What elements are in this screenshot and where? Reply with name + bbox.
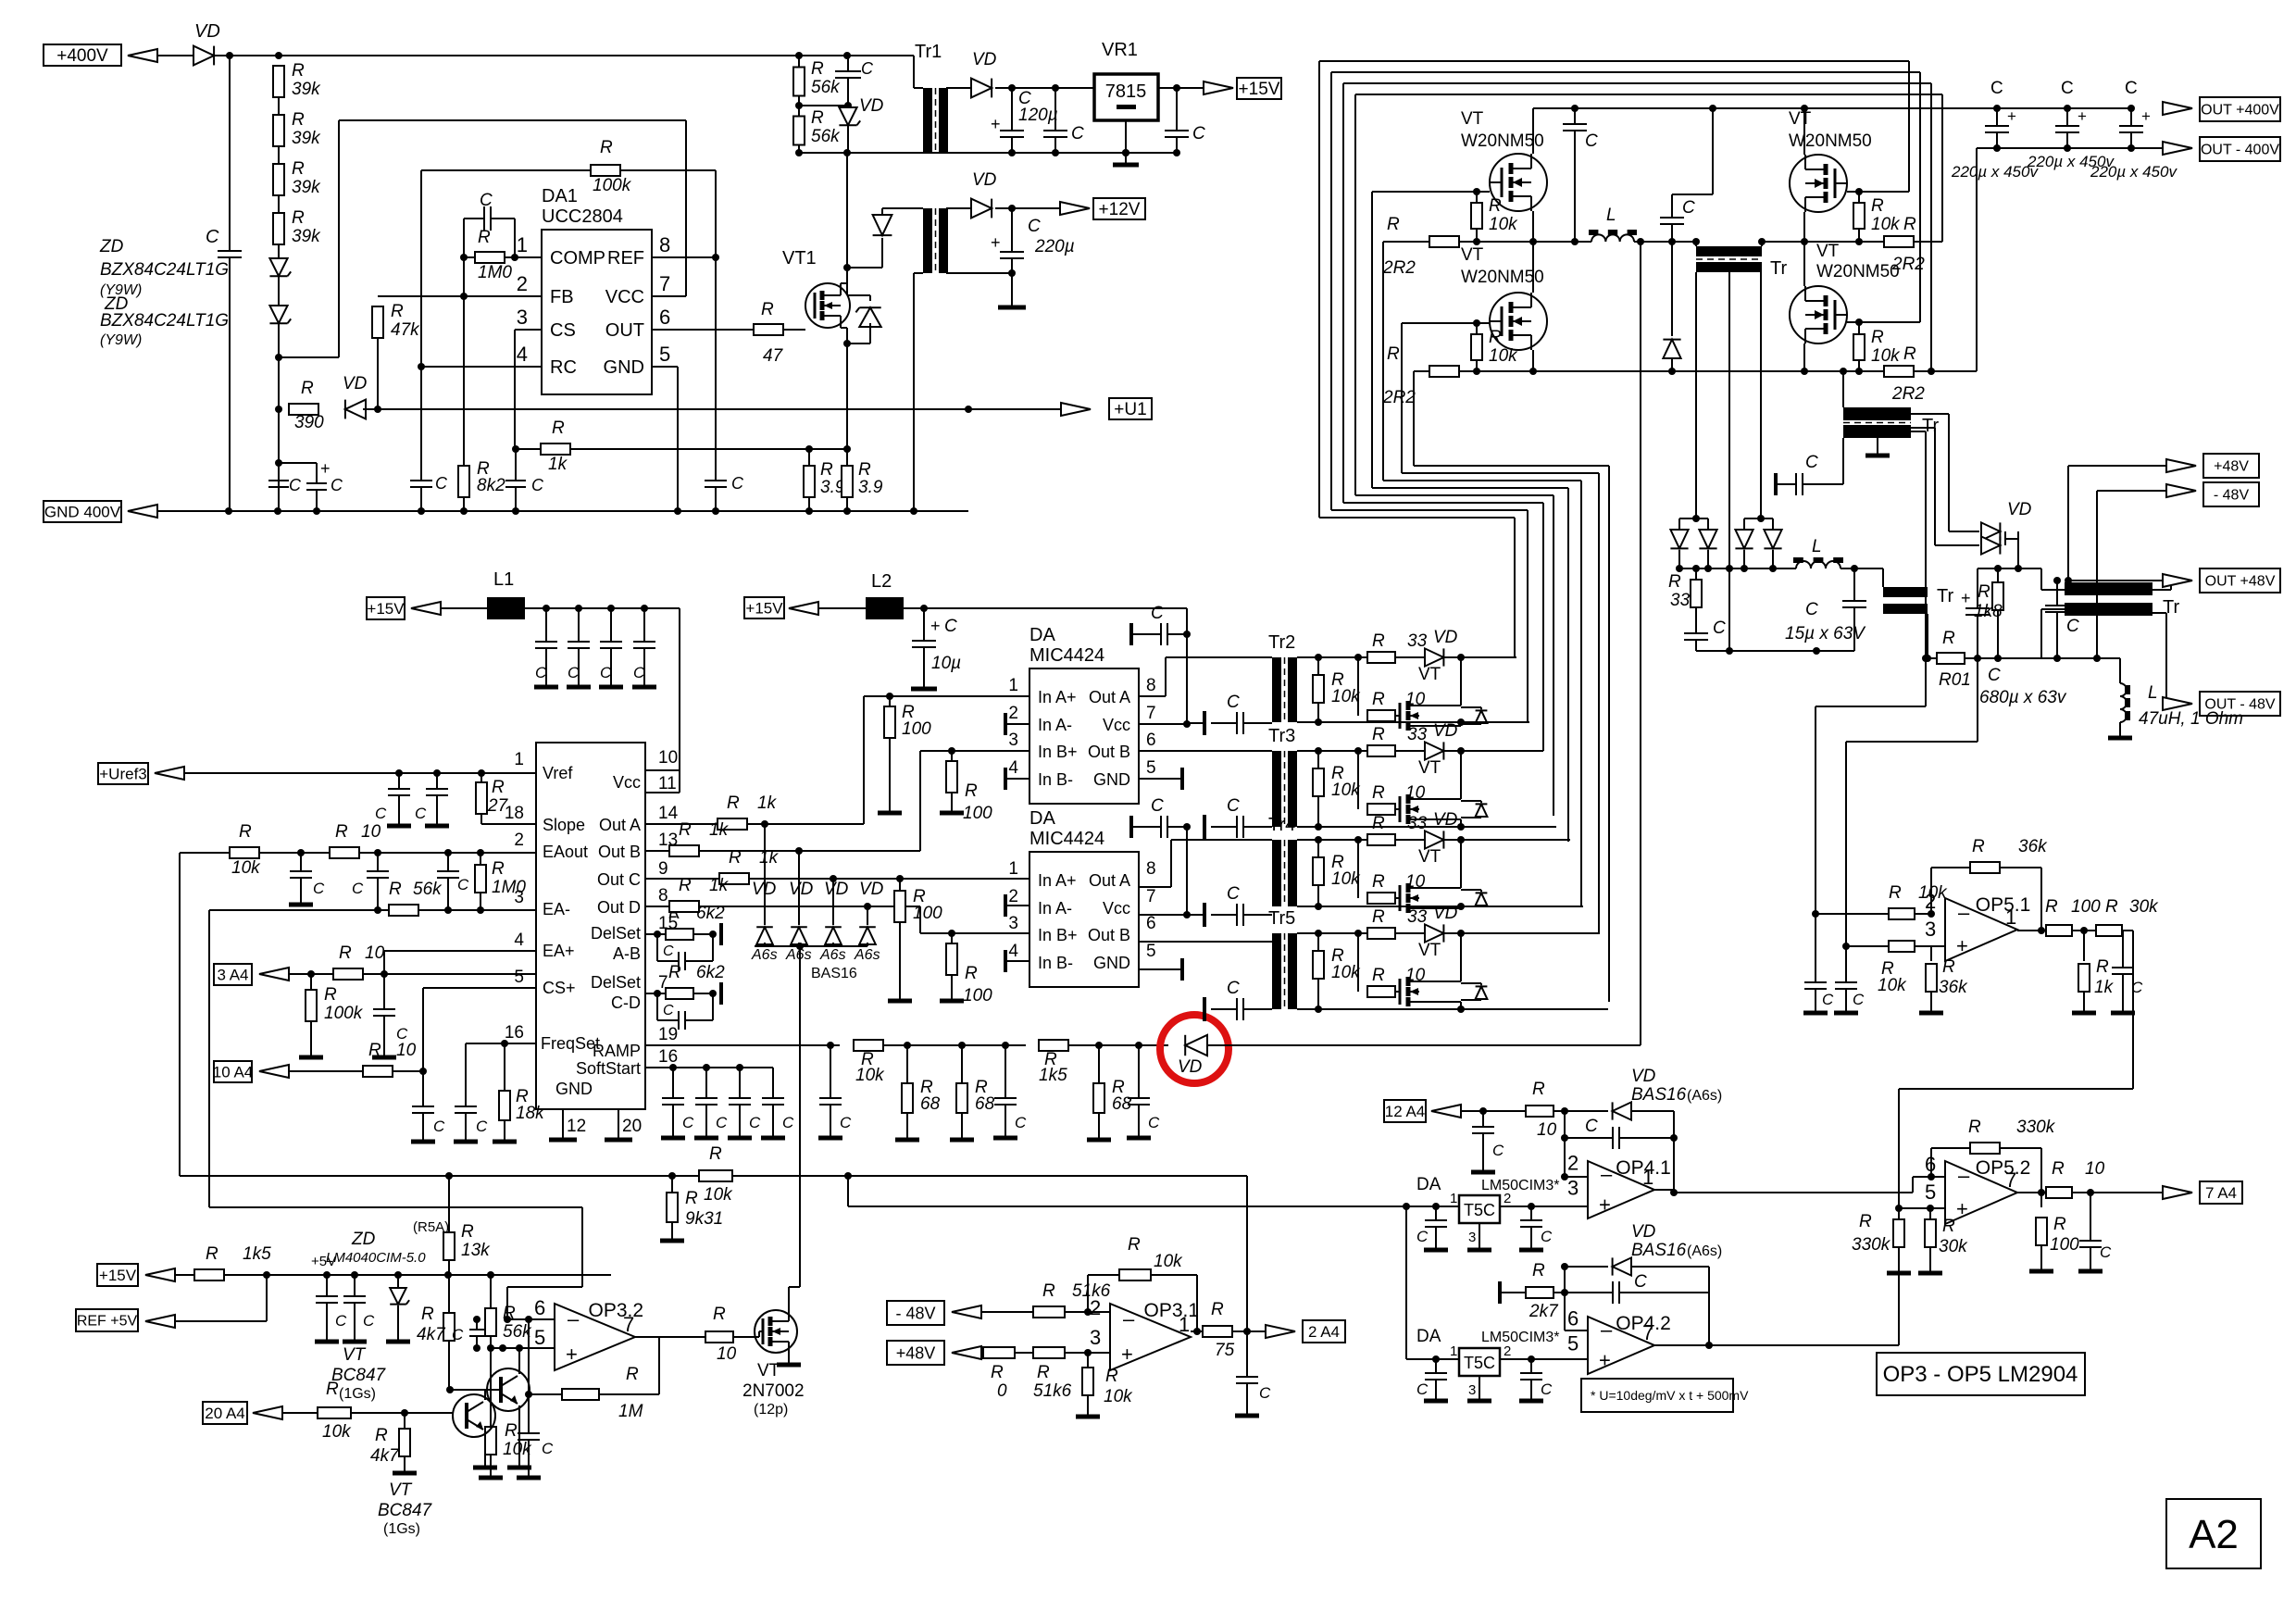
resistor R 4k7 base: [404, 1413, 406, 1428]
svg-text:C: C: [535, 664, 547, 681]
wire OutA da1 to Tr2: [1139, 695, 1166, 697]
svg-text:3.9: 3.9: [858, 478, 883, 497]
svg-text:R: R: [709, 1144, 722, 1164]
svg-text:W20NM50: W20NM50: [1461, 268, 1544, 287]
capacitor C 10u: [923, 608, 925, 641]
svg-text:C: C: [1015, 1114, 1027, 1131]
svg-text:VD: VD: [1631, 1067, 1656, 1086]
svg-text:+: +: [991, 115, 1001, 133]
svg-text:R: R: [1942, 1217, 1955, 1236]
svg-text:DA: DA: [1416, 1175, 1441, 1194]
svg-text:OP3.1: OP3.1: [1144, 1300, 1200, 1321]
svg-text:+15V: +15V: [745, 599, 783, 617]
wire drain4: [1803, 242, 1805, 286]
resistor R 6k2 ab: [666, 929, 693, 940]
node divider tap: [275, 354, 282, 361]
wire EA- long row B: [209, 1206, 582, 1208]
svg-text:BAS16: BAS16: [811, 966, 857, 981]
svg-text:8: 8: [1146, 676, 1156, 695]
resistor R 39k #2: [273, 115, 284, 146]
wire op52 minus: [1913, 1176, 1945, 1178]
wire bc847l collector: [484, 1390, 486, 1400]
resistor R 100 op52: [2040, 1193, 2042, 1207]
svg-text:+: +: [320, 459, 331, 478]
svg-text:+12V: +12V: [1099, 200, 1141, 219]
svg-text:+: +: [2007, 107, 2016, 125]
wire gate1 row: [1372, 191, 1490, 193]
resistor R 10 tr3: [1357, 751, 1359, 809]
resistor R 100 op51: [2046, 925, 2072, 936]
opamp OP3.1: [1110, 1304, 1191, 1370]
svg-text:10: 10: [658, 748, 678, 768]
svg-text:6: 6: [534, 1296, 545, 1319]
svg-text:R: R: [461, 1222, 474, 1242]
svg-text:R: R: [1042, 1281, 1055, 1301]
svg-text:L2: L2: [871, 571, 892, 592]
capacitor C cs: [515, 449, 517, 481]
svg-text:Out B: Out B: [1088, 743, 1130, 761]
capacitor C 680u: [1977, 568, 1978, 608]
resistor R 51k6 a: [1033, 1306, 1065, 1318]
svg-text:C: C: [1988, 666, 2001, 685]
svg-text:Tr1: Tr1: [915, 42, 942, 62]
svg-text:LM50CIM3*: LM50CIM3*: [1481, 1178, 1559, 1193]
capacitor C vref1: [398, 773, 400, 789]
resistor R 18k: [504, 1043, 505, 1091]
svg-text:2R2: 2R2: [1382, 258, 1416, 278]
svg-text:56k: 56k: [811, 127, 841, 146]
inductor L bridge: [1591, 234, 1634, 242]
resistor R 56k #2: [793, 117, 805, 145]
svg-text:C: C: [375, 805, 387, 822]
wire main tr taps: [1695, 272, 1697, 518]
capacitor C bridge snubber: [1574, 108, 1576, 124]
svg-text:VD: VD: [972, 50, 997, 69]
title block A2: [2166, 1499, 2261, 1568]
resistor R 39k #1: [273, 66, 284, 97]
svg-text:36k: 36k: [2018, 837, 2048, 856]
diode VD tr2: [1425, 648, 1443, 666]
wire bundle top line 2: [1331, 71, 1920, 73]
resistor R 10k op51a: [1812, 910, 1819, 918]
svg-text:C: C: [2131, 979, 2143, 996]
wire EA- row: [208, 910, 210, 1207]
capacitor C 220u out2: [2066, 108, 2068, 126]
capacitor C ref: [705, 480, 727, 481]
svg-text:100: 100: [2071, 897, 2101, 917]
driver IC DA MIC4424 #1: [1029, 668, 1139, 804]
resistor R 10k tr2: [1317, 657, 1319, 674]
transformer Tr1 lower winding: [923, 208, 932, 273]
svg-text:Tr3: Tr3: [1268, 726, 1295, 746]
resistor R 1k outC: [719, 873, 749, 884]
svg-text:6: 6: [1146, 914, 1156, 933]
wire tr3 secondary top: [1297, 750, 1543, 752]
wire Out C row: [645, 878, 719, 880]
resistor R 27 slope: [480, 773, 482, 782]
resistor R 68 #1: [906, 1045, 908, 1083]
wire rect rail: [1679, 568, 1796, 569]
svg-text:GND: GND: [1093, 954, 1130, 972]
wire op32 minus: [507, 1318, 555, 1320]
svg-text:VD: VD: [1433, 904, 1458, 923]
svg-text:Out A: Out A: [599, 816, 641, 834]
resistor R 330k gnd: [1898, 1208, 1900, 1219]
mosfet VT1: [805, 283, 850, 328]
diode VD clamp mid: [1671, 242, 1673, 336]
node REF +5V: [76, 1309, 138, 1331]
resistor R 4k7 col: [448, 1275, 450, 1312]
svg-text:EA+: EA+: [543, 942, 575, 960]
resistor R 8k2: [458, 466, 469, 497]
svg-text:10k: 10k: [1331, 869, 1361, 889]
wire InB+ da1: [920, 750, 1029, 752]
wire bundle top line 4: [1355, 94, 1942, 95]
svg-text:R: R: [389, 880, 402, 899]
svg-text:VT1: VT1: [782, 248, 817, 269]
svg-text:1: 1: [1450, 1343, 1457, 1359]
svg-text:R: R: [391, 302, 404, 321]
svg-text:4: 4: [1008, 758, 1018, 778]
svg-text:DA: DA: [1029, 625, 1055, 645]
svg-text:W20NM50: W20NM50: [1789, 131, 1872, 151]
svg-text:+400V: +400V: [56, 46, 108, 66]
svg-text:1: 1: [1179, 1313, 1190, 1336]
wire bundle top line 1: [1319, 60, 1909, 62]
svg-text:R: R: [1668, 572, 1681, 592]
svg-text:30k: 30k: [1939, 1237, 1968, 1256]
svg-text:20 A4: 20 A4: [205, 1405, 245, 1422]
svg-text:4k7: 4k7: [417, 1325, 446, 1344]
resistor R 10k gnd op31: [1087, 1353, 1089, 1367]
svg-text:R: R: [1372, 907, 1385, 927]
svg-text:FB: FB: [550, 287, 574, 307]
svg-text:DA: DA: [1029, 808, 1055, 829]
diode VD 48v pair: [1911, 413, 1949, 415]
svg-text:100: 100: [2050, 1235, 2079, 1255]
wire CS+ pin5: [423, 987, 536, 989]
svg-text:13k: 13k: [461, 1241, 491, 1260]
svg-text:C: C: [1541, 1228, 1553, 1245]
coupling cap C tr4: [1203, 903, 1206, 927]
resistor R 51k6 b: [1033, 1347, 1065, 1358]
wire to Vcc pins: [679, 608, 680, 759]
inductor L out: [1796, 561, 1841, 568]
resistor R 1M feedback: [528, 1319, 530, 1394]
wire top rail 400V: [214, 55, 914, 56]
capacitor C op31 out: [1246, 1331, 1248, 1377]
wire staircase line 5: [1371, 192, 1373, 488]
svg-text:R: R: [478, 228, 491, 247]
capacitor C ea+: [383, 974, 385, 1009]
resistor R 1k: [541, 443, 570, 455]
svg-text:6: 6: [659, 306, 670, 329]
ground tick InB- da1: [1005, 778, 1029, 780]
diode VD BAS16 #1: [764, 824, 766, 925]
svg-text:6k2: 6k2: [696, 963, 725, 982]
resistor R 2R2 s3: [1884, 236, 1914, 247]
capacitor C ramp3: [1138, 1045, 1140, 1098]
node 12 A4: [1384, 1100, 1426, 1122]
capacitor C vref2: [436, 773, 438, 789]
svg-text:C: C: [1713, 618, 1726, 638]
resistor R 1k outA: [717, 818, 747, 830]
svg-text:10k: 10k: [1331, 781, 1361, 800]
svg-text:GND: GND: [1093, 770, 1130, 789]
svg-text:7: 7: [623, 1313, 634, 1336]
svg-text:C: C: [363, 1312, 375, 1330]
svg-text:R: R: [679, 876, 692, 895]
svg-text:Tr4: Tr4: [1268, 815, 1295, 835]
svg-text:10k: 10k: [1331, 687, 1361, 706]
capacitor C l1-1: [545, 608, 547, 642]
node 3 A4: [214, 964, 252, 985]
svg-text:R: R: [965, 964, 978, 983]
svg-text:R: R: [368, 1041, 381, 1060]
svg-text:C: C: [2061, 79, 2074, 98]
capacitor C r33: [1684, 632, 1708, 634]
svg-text:R: R: [324, 985, 337, 1005]
svg-text:A6s: A6s: [854, 947, 880, 963]
resistor R 10k tr4: [1317, 840, 1319, 856]
svg-text:4: 4: [514, 931, 524, 950]
svg-text:1: 1: [1450, 1191, 1457, 1206]
svg-text:VT: VT: [1461, 245, 1484, 265]
svg-text:L: L: [1812, 537, 1822, 556]
node OUT -400V: [2163, 142, 2192, 155]
svg-text:2: 2: [1567, 1152, 1578, 1175]
svg-text:2: 2: [1504, 1191, 1511, 1206]
wire tr2 secondary bottom: [1297, 721, 1529, 723]
svg-text:R: R: [1942, 957, 1955, 977]
svg-text:51k6: 51k6: [1033, 1381, 1072, 1401]
resistor R 10k g1: [1476, 192, 1478, 203]
svg-text:R: R: [1859, 1212, 1872, 1231]
svg-text:1: 1: [1008, 676, 1018, 695]
svg-text:R: R: [1489, 196, 1502, 216]
wire REF pin8: [652, 256, 716, 258]
svg-text:1k5: 1k5: [243, 1244, 271, 1264]
diode VD body clamp tr2: [1461, 706, 1481, 708]
svg-text:DA1: DA1: [542, 186, 578, 206]
svg-text:10µ: 10µ: [931, 654, 961, 673]
svg-text:Vref: Vref: [543, 764, 573, 782]
svg-text:+: +: [2141, 107, 2151, 125]
ground tick InB- da2: [1005, 960, 1029, 962]
svg-text:1: 1: [1008, 859, 1018, 879]
svg-text:10 A4: 10 A4: [213, 1063, 254, 1081]
svg-text:EAout: EAout: [543, 843, 588, 861]
capacitor C 48 filt: [2056, 581, 2058, 606]
node +15V L1 input: [367, 597, 405, 619]
svg-text:W20NM50: W20NM50: [1816, 262, 1900, 281]
node -48V sense: [2096, 491, 2098, 658]
svg-text:Out B: Out B: [598, 843, 641, 861]
svg-text:Vcc: Vcc: [613, 773, 641, 792]
svg-text:BC847: BC847: [331, 1366, 387, 1385]
wire mid rail: [1477, 241, 1591, 243]
resistor R 30k gnd: [1929, 1208, 1931, 1219]
resistor R 2R2 rail1: [1383, 241, 1429, 243]
svg-text:R: R: [239, 822, 252, 842]
svg-text:BZX84C24LT1G: BZX84C24LT1G: [100, 260, 229, 280]
wire drain1: [1532, 108, 1534, 154]
wire winding return: [914, 272, 923, 274]
svg-text:Out C: Out C: [597, 870, 641, 889]
resistor R 47k: [372, 306, 383, 338]
svg-text:+: +: [991, 233, 1001, 252]
wire divider down: [278, 357, 280, 409]
svg-text:330k: 330k: [2016, 1118, 2056, 1137]
svg-text:7 A4: 7 A4: [2205, 1184, 2237, 1202]
zener diode ZD BZX84C24LT1G #1: [269, 258, 287, 276]
svg-text:VT: VT: [1461, 109, 1484, 129]
opamp OP4.1: [1588, 1161, 1654, 1218]
svg-text:C: C: [731, 474, 744, 493]
svg-text:8k2: 8k2: [477, 476, 505, 495]
svg-text:C: C: [1192, 124, 1205, 144]
svg-text:10k: 10k: [855, 1066, 885, 1085]
wire op41 minus: [1564, 1138, 1566, 1177]
svg-text:L: L: [1606, 206, 1616, 225]
svg-text:Tr: Tr: [2163, 597, 2179, 618]
svg-text:C: C: [1585, 131, 1598, 151]
wire VT1 drain riser: [846, 153, 848, 294]
diode VD BAS16 #3: [832, 879, 834, 925]
svg-text:+: +: [930, 617, 941, 635]
svg-text:R: R: [761, 300, 774, 319]
wire drain2: [1532, 242, 1534, 293]
resistor R 10 tr2: [1357, 657, 1359, 716]
svg-text:C-D: C-D: [611, 993, 641, 1012]
svg-text:2: 2: [517, 272, 528, 295]
node OUT - 48V: [2200, 692, 2280, 716]
svg-text:27: 27: [487, 796, 509, 816]
svg-text:R: R: [1372, 690, 1385, 709]
svg-text:2 A4: 2 A4: [1308, 1323, 1340, 1341]
diode VD 15V rectifier: [946, 87, 970, 89]
wire op51 out: [2017, 930, 2046, 931]
wire vcc drop da1: [1186, 608, 1188, 634]
svg-text:R: R: [1489, 328, 1502, 347]
svg-text:R: R: [1372, 966, 1385, 985]
svg-text:VD: VD: [789, 880, 814, 899]
svg-text:3: 3: [1567, 1177, 1578, 1200]
wire tr5 secondary top: [1297, 932, 1598, 934]
svg-text:C: C: [457, 876, 469, 893]
wire +400V to diode: [128, 49, 157, 62]
svg-text:10: 10: [365, 943, 385, 963]
capacitor C 15u: [1841, 568, 1883, 569]
svg-text:C: C: [682, 1114, 694, 1131]
svg-text:GND: GND: [555, 1080, 593, 1098]
wire op31 out: [1191, 1330, 1203, 1332]
wire sense drop 2: [1845, 742, 1847, 944]
svg-text:1: 1: [517, 233, 528, 256]
diode pair rectifier 2: [1744, 518, 1773, 519]
svg-text:R: R: [1871, 196, 1884, 216]
svg-text:2: 2: [514, 831, 524, 850]
capacitor C l1-3: [610, 608, 612, 642]
svg-text:VT: VT: [1789, 109, 1812, 129]
svg-text:R: R: [206, 1244, 218, 1264]
svg-text:R: R: [339, 943, 352, 963]
resistor R 100 da2b: [951, 933, 953, 943]
capacitor C freq: [455, 1106, 477, 1107]
diode VD BAS16 op41: [1613, 1102, 1631, 1119]
resistor R 1k8: [1997, 568, 1999, 581]
svg-text:4: 4: [517, 343, 528, 366]
capacitor C fb op42: [1565, 1292, 1613, 1293]
svg-text:RC: RC: [550, 357, 577, 378]
wire bc847r base: [450, 1389, 501, 1391]
svg-text:1M: 1M: [618, 1402, 643, 1421]
svg-text:GND: GND: [604, 357, 644, 378]
wire FreqSet: [466, 1043, 536, 1044]
wire VT1 source: [846, 328, 848, 449]
svg-text:In B+: In B+: [1038, 926, 1078, 944]
wire bootstrap to VCC: [338, 120, 340, 357]
svg-text:C: C: [1990, 79, 2003, 98]
svg-text:10k: 10k: [231, 858, 261, 878]
svg-text:2R2: 2R2: [1891, 384, 1925, 404]
svg-text:R: R: [1972, 837, 1985, 856]
transformer Tr 48v out1: [1883, 587, 1928, 597]
resistor R 1k5: [1039, 1040, 1068, 1051]
svg-text:R: R: [1978, 582, 1990, 602]
svg-text:Tr: Tr: [1937, 586, 1953, 606]
svg-text:R: R: [1037, 1363, 1050, 1382]
svg-text:7815: 7815: [1105, 81, 1147, 102]
svg-text:OUT +48V: OUT +48V: [2205, 574, 2276, 590]
svg-text:75: 75: [1215, 1341, 1235, 1360]
svg-text:+: +: [2078, 107, 2087, 125]
wire ramp to right: [1207, 1044, 1641, 1046]
svg-text:1k: 1k: [548, 455, 568, 474]
svg-text:In B+: In B+: [1038, 743, 1078, 761]
svg-text:VD: VD: [343, 374, 368, 394]
svg-text:R: R: [965, 781, 978, 801]
wire bc847r emitter: [518, 1405, 520, 1466]
wire delset A-B pin15: [645, 933, 665, 935]
wire sense drop 1: [1815, 706, 1816, 912]
opamp OP4.2: [1588, 1317, 1654, 1374]
svg-text:C: C: [352, 880, 364, 897]
svg-text:ZD: ZD: [351, 1230, 376, 1249]
opamp OP5.1: [1945, 898, 2017, 961]
svg-text:C: C: [452, 1326, 464, 1343]
note OP3-OP5 LM2904: [1877, 1353, 2085, 1395]
svg-text:VD: VD: [1433, 810, 1458, 830]
svg-text:Tr5: Tr5: [1268, 908, 1295, 929]
svg-text:120µ: 120µ: [1018, 106, 1058, 125]
capacitor C op32 in: [476, 1319, 478, 1330]
capacitor C fb op41: [1564, 1111, 1566, 1138]
transformer Tr2: [1272, 657, 1281, 722]
svg-text:VT: VT: [757, 1361, 780, 1380]
svg-text:C: C: [313, 880, 325, 897]
svg-text:C: C: [944, 617, 957, 636]
svg-text:10k: 10k: [1871, 346, 1901, 366]
regulator VR1 7815: [1094, 74, 1158, 120]
svg-text:Slope: Slope: [543, 816, 585, 834]
wire EAout long row A: [180, 1175, 1247, 1177]
svg-text:C: C: [1853, 991, 1865, 1008]
svg-text:+48V: +48V: [2214, 459, 2249, 475]
svg-text:2: 2: [1504, 1343, 1511, 1359]
svg-text:OP5.2: OP5.2: [1976, 1157, 2031, 1179]
node +15V bottom: [97, 1264, 138, 1286]
